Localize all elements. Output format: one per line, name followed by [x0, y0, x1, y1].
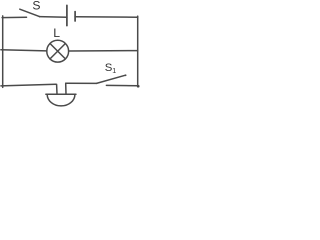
- lamp L cross stroke 2: [50, 44, 65, 59]
- wire right vertical: [137, 16, 139, 87]
- lamp L circle: [47, 40, 69, 62]
- svg-text:S1: S1: [105, 62, 117, 75]
- node S1 blade tip dot: [125, 74, 127, 76]
- wire top-left corner to switch S contact: [2, 16, 26, 18]
- wire lamp to right vertical: [69, 50, 138, 52]
- bell dome: [47, 95, 75, 106]
- wire left vertical: [2, 16, 4, 88]
- battery long plate: [66, 5, 68, 25]
- wire bottom-left corner to bell: [1, 84, 56, 86]
- svg-text:L: L: [53, 26, 60, 40]
- wire bell to switch S1 pivot: [66, 82, 97, 84]
- switch S1 blade: [97, 75, 126, 83]
- wire switch S1 contact to bottom-right corner: [106, 84, 138, 86]
- wire middle-left junction to lamp: [1, 50, 47, 51]
- svg-text:S: S: [32, 0, 40, 13]
- bell top plate: [46, 93, 76, 95]
- wire battery to top-right corner: [75, 16, 138, 18]
- wire switch S pivot to battery: [40, 16, 67, 19]
- battery short plate: [74, 12, 76, 21]
- bell right terminal prong: [65, 83, 67, 94]
- node bottom-right corner dot: [137, 85, 140, 88]
- bell left terminal prong: [56, 84, 58, 94]
- lamp L cross stroke 1: [50, 44, 65, 59]
- switch S blade: [20, 9, 40, 16]
